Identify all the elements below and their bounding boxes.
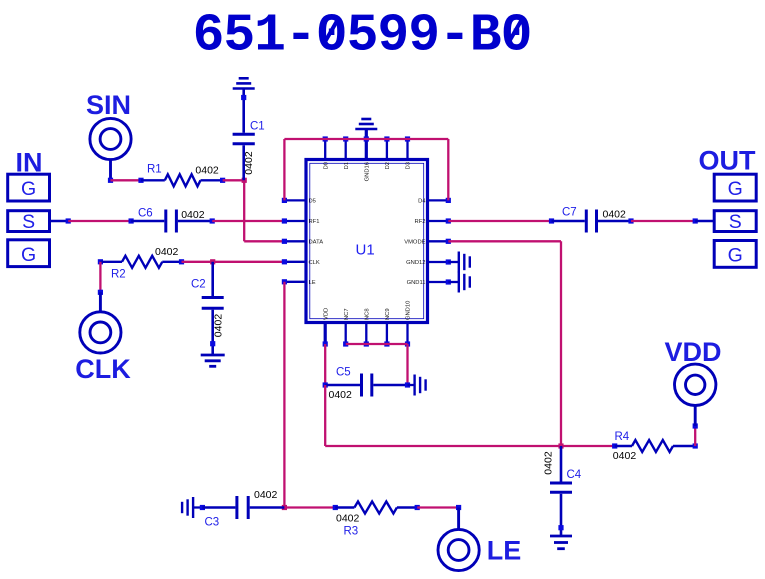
svg-text:U1: U1 (356, 241, 375, 258)
pin LE (284, 281, 306, 283)
resistor R1 (138, 178, 143, 183)
capacitor C6 (129, 218, 134, 223)
connector LE (457, 508, 460, 530)
capacitor C3 (200, 505, 205, 510)
resistor R4 (612, 443, 617, 448)
pin D3 (406, 139, 408, 160)
svg-text:C4: C4 (567, 469, 582, 481)
svg-text:GND16: GND16 (365, 162, 371, 181)
capacitor C4 (560, 446, 563, 482)
svg-text:D1: D1 (344, 162, 350, 169)
svg-text:GND11: GND11 (407, 280, 426, 286)
wire node to DATA pin (243, 180, 245, 241)
svg-text:D0: D0 (323, 162, 329, 169)
connector IN pad G2 (8, 240, 50, 267)
wire R4 to VDD connector (694, 426, 696, 446)
svg-text:NC8: NC8 (365, 308, 371, 320)
pin VDD (324, 323, 327, 345)
wire R3 to LE connector (417, 506, 458, 508)
connector SIN circle (90, 118, 131, 159)
pin NC9 (386, 323, 388, 345)
svg-text:C7: C7 (562, 206, 577, 218)
pin RF1 (284, 220, 306, 222)
connector IN pad S (8, 211, 50, 232)
svg-text:VDD: VDD (665, 337, 722, 367)
svg-text:0402: 0402 (243, 151, 255, 175)
svg-text:G: G (21, 178, 36, 200)
svg-text:DATA: DATA (309, 240, 324, 246)
junction LE/C3/R3 (282, 505, 287, 510)
svg-text:C3: C3 (205, 516, 220, 528)
svg-text:0402: 0402 (213, 314, 225, 338)
pin NC8 (365, 323, 367, 345)
svg-text:R2: R2 (111, 269, 126, 281)
svg-text:D3: D3 (406, 162, 412, 169)
svg-text:0402: 0402 (543, 451, 555, 475)
wire bus to D5 (283, 139, 285, 200)
IN S pin stub (50, 220, 69, 222)
pin GND16 (365, 129, 368, 160)
ground above C1 (239, 77, 249, 80)
svg-text:GND12: GND12 (406, 260, 425, 266)
svg-text:D4: D4 (418, 199, 426, 205)
svg-text:R4: R4 (615, 431, 630, 443)
ground left of C3 (192, 497, 194, 518)
svg-text:0402: 0402 (155, 246, 179, 258)
ground above GND16 (361, 118, 371, 121)
wire VMODE (448, 240, 561, 242)
svg-text:0402: 0402 (195, 165, 219, 177)
svg-text:C5: C5 (336, 367, 351, 379)
svg-text:651-0599-B0: 651-0599-B0 (193, 5, 532, 65)
connector OUT pad G1 (714, 174, 756, 201)
svg-text:0402: 0402 (254, 489, 278, 501)
svg-text:NC7: NC7 (344, 308, 350, 320)
connector VDD (694, 406, 697, 427)
wire GND10 down (406, 344, 408, 385)
svg-text:CLK: CLK (75, 354, 131, 384)
IC U1 body (306, 160, 428, 323)
pin GND10 (406, 323, 408, 345)
svg-text:R3: R3 (344, 525, 359, 537)
wire bus to D4 (447, 139, 449, 200)
connector OUT pad G2 (714, 241, 756, 268)
svg-text:0402: 0402 (181, 209, 205, 221)
wire top bus (284, 138, 448, 140)
svg-text:0402: 0402 (329, 389, 353, 401)
ground below C2 (201, 354, 225, 357)
ground right of C5 (408, 384, 415, 386)
pin RF2 (428, 220, 449, 222)
svg-text:NC9: NC9 (385, 308, 391, 320)
svg-text:GND10: GND10 (406, 301, 412, 320)
wire R1 to node (223, 179, 245, 181)
wire C6 to RF1 (212, 220, 284, 222)
wire LE pin down (283, 282, 285, 508)
pin CLK (284, 261, 306, 263)
svg-text:G: G (728, 178, 743, 200)
connector IN pad G1 (8, 174, 50, 201)
wire NC bus (346, 343, 408, 345)
wire VDD pin down (324, 344, 326, 385)
wire VDD trace down and right (324, 385, 326, 446)
pin GND11 (428, 281, 449, 283)
wire R2 to CLK pin (182, 261, 285, 263)
junction R1/C1/DATA (242, 178, 247, 183)
resistor R3 (333, 505, 338, 510)
ground GND11 (448, 281, 459, 283)
wire C3 node to R3 (284, 506, 335, 508)
svg-text:G: G (21, 244, 36, 266)
resistor R2 (98, 259, 103, 264)
junction R2/C2 (210, 259, 215, 264)
SIN pin lead (109, 160, 112, 181)
connector OUT pad S (714, 211, 756, 232)
wire SIN to R1 (111, 179, 142, 181)
pin D0 (324, 139, 326, 160)
svg-text:0402: 0402 (603, 209, 627, 221)
ground below C4 (550, 535, 572, 538)
capacitor C7 (549, 218, 554, 223)
svg-text:S: S (22, 211, 35, 233)
wire IN.S to C6 (68, 220, 131, 222)
svg-text:R1: R1 (147, 163, 162, 175)
svg-text:LE: LE (309, 280, 316, 286)
svg-text:OUT: OUT (699, 145, 757, 175)
svg-text:VDD: VDD (323, 308, 329, 320)
svg-text:D5: D5 (309, 199, 316, 205)
svg-text:RF2: RF2 (415, 219, 426, 225)
svg-text:RF1: RF1 (309, 219, 320, 225)
pin D5 (284, 199, 306, 201)
wire C7 to OUT.S (631, 220, 695, 222)
connector CLK (98, 290, 103, 295)
pin D1 (345, 139, 347, 160)
wire R2 to CLK connector (99, 262, 101, 293)
svg-text:C2: C2 (191, 279, 206, 291)
svg-text:CLK: CLK (309, 260, 320, 266)
pin NC7 (345, 323, 347, 345)
title zero slashes (324, 18, 339, 44)
pin D2 (386, 139, 388, 160)
svg-text:G: G (728, 245, 743, 267)
junction VDD/C4 (558, 443, 563, 448)
svg-text:C1: C1 (250, 120, 265, 132)
capacitor C5 (323, 382, 328, 387)
ground GND12 (448, 261, 459, 263)
pin DATA (284, 240, 306, 242)
svg-text:0402: 0402 (336, 513, 360, 525)
pin VMODE (428, 240, 449, 242)
svg-text:C6: C6 (138, 208, 153, 220)
pin D4 (428, 199, 449, 201)
svg-text:VMODE: VMODE (404, 240, 425, 246)
capacitor C2 (211, 262, 214, 296)
wire RF2 to C7 (448, 220, 551, 222)
svg-text:S: S (729, 211, 742, 233)
svg-text:LE: LE (487, 535, 522, 565)
svg-text:SIN: SIN (86, 90, 131, 120)
capacitor C1 (242, 89, 245, 133)
pin GND12 (428, 261, 449, 263)
svg-text:0402: 0402 (613, 450, 637, 462)
svg-text:D2: D2 (385, 162, 391, 169)
